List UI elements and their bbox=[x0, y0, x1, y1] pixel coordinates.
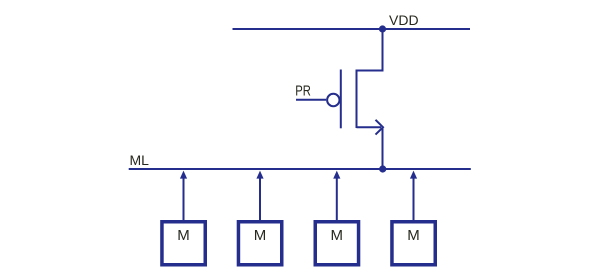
wire PR input to gate bubble bbox=[296, 99, 326, 101]
wire ML rail bbox=[129, 168, 471, 170]
memory cell M3 box bbox=[315, 222, 358, 265]
svg-text:M: M bbox=[254, 227, 267, 244]
transistor Q1 precharge PMOS: channel bar bbox=[356, 70, 358, 129]
wire cell 3 to ML bbox=[336, 177, 338, 220]
memory cell M1 box bbox=[162, 222, 205, 265]
wire VDD to transistor source bbox=[357, 29, 383, 71]
transistor Q1 gate bar bbox=[340, 70, 342, 129]
junction dot on VDD rail bbox=[379, 25, 386, 32]
junction dot on ML rail bbox=[379, 165, 386, 172]
wire cell 1 to ML bbox=[183, 177, 185, 220]
arrowhead cell 1 bbox=[180, 171, 187, 179]
svg-text:VDD: VDD bbox=[389, 12, 419, 28]
svg-text:ML: ML bbox=[130, 152, 150, 168]
svg-text:M: M bbox=[177, 227, 190, 244]
memory cell M2 box bbox=[238, 222, 281, 265]
wire cell 2 to ML bbox=[259, 177, 261, 220]
transistor Q1 drain arrowhead chevron bbox=[376, 120, 384, 135]
arrowhead cell 2 bbox=[256, 171, 263, 179]
transistor Q1 drain lead with arrow bbox=[357, 126, 382, 128]
wire drain down to ML bbox=[382, 127, 384, 169]
svg-text:M: M bbox=[331, 227, 344, 244]
svg-text:PR: PR bbox=[295, 82, 311, 99]
memory cell M4 box bbox=[392, 222, 435, 265]
wire VDD rail bbox=[233, 28, 471, 30]
arrowhead cell 3 bbox=[333, 171, 340, 179]
svg-text:M: M bbox=[407, 227, 420, 244]
wire cell 4 to ML bbox=[413, 177, 415, 220]
transistor Q1 gate inversion bubble bbox=[327, 94, 339, 106]
arrowhead cell 4 bbox=[410, 171, 417, 179]
